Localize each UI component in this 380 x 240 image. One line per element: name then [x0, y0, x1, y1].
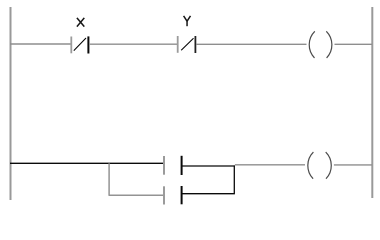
branch drop wire	[108, 163, 110, 195]
coil 2 (output coil)	[308, 152, 331, 179]
branch bottom wire left	[109, 194, 164, 196]
contact Y (normally-closed)	[178, 36, 196, 53]
wire rung2: rail to contact A	[10, 162, 163, 164]
branch bottom wire right	[182, 193, 235, 195]
contact X (normally-closed)	[71, 36, 88, 53]
label Y	[184, 16, 191, 26]
coil 1 (output coil)	[309, 31, 332, 58]
wire rung1: coil 1 to right rail	[335, 43, 373, 45]
wire rung2: contact A to junction	[182, 165, 235, 167]
wire rung1: rail to contact X	[10, 43, 71, 45]
left power rail	[10, 7, 12, 200]
label X	[77, 18, 84, 27]
wire rung1: contact X to contact Y	[89, 43, 177, 45]
junction vertical (branch rejoin)	[233, 165, 235, 193]
wire rung1: contact Y to coil 1	[196, 43, 307, 45]
contact B (normally-open, branch)	[164, 186, 182, 205]
wire rung2: coil 2 to right rail	[334, 164, 372, 166]
wire rung2: junction to coil 2	[235, 164, 305, 166]
contact A (normally-open, main rung)	[164, 156, 182, 175]
right power rail	[371, 7, 373, 198]
